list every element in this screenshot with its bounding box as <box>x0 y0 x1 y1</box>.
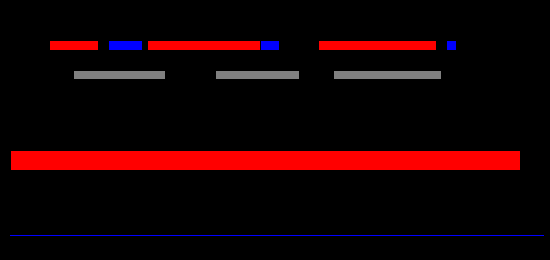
feature bar blue 2 (row 1) <box>261 41 279 50</box>
feature bar blue 3 (row 1) <box>447 41 456 50</box>
feature bar gray 2 (row 2) <box>216 71 299 80</box>
feature bar gray 1 (row 2) <box>74 71 165 80</box>
feature bar gray 3 (row 2) <box>334 71 441 80</box>
feature bar red 1 (row 1) <box>50 41 98 50</box>
wide red region bar <box>11 151 521 170</box>
feature bar blue 1 (row 1) <box>109 41 142 50</box>
feature bar red 2 (row 1) <box>148 41 260 50</box>
blue axis line <box>10 235 544 236</box>
feature bar red 3 (row 1) <box>319 41 436 50</box>
